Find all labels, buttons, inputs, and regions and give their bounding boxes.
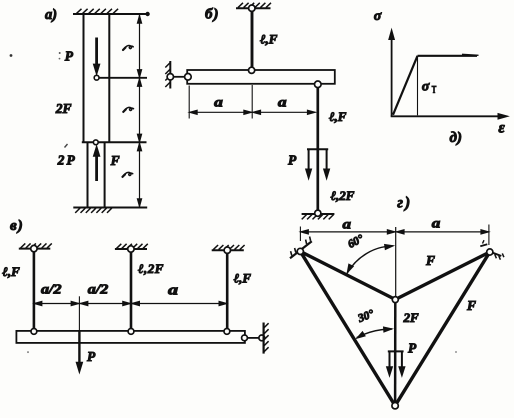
fig b: right hanging rod [316,85,319,210]
fig b: beam right pin [315,81,322,88]
svg-text:a: a [168,282,179,298]
fig a: ceiling support [73,9,149,16]
svg-text:г): г) [397,195,412,212]
svg-text:2F: 2F [55,101,72,116]
svg-text:д): д) [450,130,462,146]
fig v: support 3 pin [224,247,230,253]
fig d: sigma axis [389,30,395,117]
svg-text:a: a [214,95,223,110]
svg-text:P: P [87,349,96,364]
svg-text:б): б) [205,7,219,23]
fig a: floor support [73,208,147,213]
fig v: support 1 pin [31,245,37,251]
fig b: beam [187,70,335,84]
svg-text:2P: 2P [57,153,77,168]
fig g: dimension a a [300,225,489,246]
svg-text:a: a [278,96,287,111]
svg-text:F: F [425,253,435,268]
fig b: bottom pin [315,210,321,216]
svg-text:а): а) [45,7,57,23]
svg-text:ℓ,F: ℓ,F [329,109,347,124]
fig g: bar left support to centre node [300,251,395,299]
fig a: force P arrow [93,38,99,75]
fig a: stepped bar lower section F [88,142,105,207]
fig g: vertical bar 2F [394,300,397,406]
fig v: beam pin 1 [31,329,37,335]
svg-text:P: P [408,341,417,356]
fig g: left support pin [297,248,303,254]
fig v: dimension a/2 a/2 a [34,301,227,305]
fig d: label sigma_t [422,79,437,94]
fig v: extension line for P [78,296,80,331]
fig v: rod 2 l,2F [130,249,133,331]
fig g: 30 degree arc [357,327,393,338]
svg-text:ε: ε [498,120,505,137]
fig v: beam [16,331,245,343]
fig b: dimension a a [189,85,315,119]
scan speck 3 [65,144,68,148]
svg-text:ℓ,F: ℓ,F [234,270,252,285]
fig b: link wall to beam [172,76,186,78]
fig d: epsilon axis [391,114,508,120]
svg-text:a/2: a/2 [41,282,62,297]
fig b: top vertical rod l,F [251,8,254,70]
svg-text:a: a [343,218,352,233]
fig a: node 2 pin [93,140,98,145]
fig d: elastic slope line [393,56,418,115]
svg-text:F: F [466,298,476,313]
fig a: step shoulder line [82,141,147,143]
scan speck 5 [455,351,457,353]
fig g: bottom node pin [392,403,398,409]
fig g: bar right support to centre node [395,252,490,300]
svg-text:σ: σ [422,79,430,94]
fig v: right wall pin [259,335,265,341]
fig a: stepped bar upper section 2F [84,14,110,142]
scan speck 1 [59,52,61,54]
fig a: node 1 pin [94,75,99,80]
fig a: force 2P arrow [93,146,99,181]
fig a: length label l (middle) [123,107,133,111]
fig g: centre reference line [395,227,397,297]
fig g: bar right support to bottom node [395,252,490,406]
fig v: force P arrow [76,331,82,373]
fig v: rod 3 l,F [226,250,229,331]
svg-text:2F: 2F [403,310,420,325]
fig v: right wall support [264,323,269,354]
fig d: yield plateau line [418,54,479,56]
fig v: hanger support 2 [115,244,148,249]
fig b: wall pin [167,74,173,80]
svg-text:ℓ,2F: ℓ,2F [138,261,164,276]
svg-text:a: a [432,217,441,232]
fig b: top support pin [249,5,255,11]
svg-text:ℓ,2F: ℓ,2F [331,188,355,203]
fig g: right support pin [487,249,493,255]
fig g: 60 degree arc [347,245,393,274]
fig b: beam left end pin [185,74,192,81]
fig d: drop line at yield point [417,57,419,115]
fig v: support 2 pin [128,246,134,252]
fig b: force P yoke with two arrows [306,149,330,179]
fig v: beam pin 2 [128,329,134,335]
fig v: link beam to right wall [246,337,260,339]
svg-text:P: P [288,152,297,167]
fig a: section line at node 1 [99,77,147,79]
fig a: length label l (top) [123,46,133,50]
svg-text:F: F [110,153,120,168]
fig v: rod 1 l,F [33,249,36,331]
scan speck 2 [10,54,13,57]
fig a: length label l (bottom) [122,172,132,176]
scan speck 4 [27,351,29,353]
fig v: beam right end pin [242,335,248,341]
svg-text:P: P [65,48,74,63]
fig g: left support hatched surface [290,237,312,259]
svg-text:в): в) [10,218,24,234]
fig v: hanger support 1 [19,243,52,248]
svg-text:a/2: a/2 [88,282,109,297]
fig v: beam pin 3 [224,329,230,335]
svg-text:ℓ,F: ℓ,F [2,264,20,279]
fig b: top hinged support [236,3,271,8]
fig g: right support hatched surface [480,240,504,260]
svg-text:σ: σ [374,9,382,24]
fig a: dimension line with three l segments [137,15,141,207]
fig b: left wall support [165,61,170,89]
fig g: bar left support to bottom node [300,251,395,405]
fig g: centre node pin [392,297,398,303]
fig b: beam centre pin [249,67,255,73]
fig v: hanger support 3 [212,245,245,250]
fig g: force P yoke [387,351,405,376]
fig b: bottom support [302,214,335,219]
svg-text:ℓ,F: ℓ,F [260,32,278,47]
